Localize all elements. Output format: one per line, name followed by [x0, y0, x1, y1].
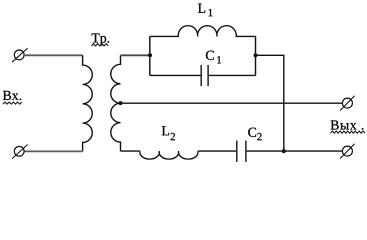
- label Vx: [3, 91, 21, 100]
- label Tr: [92, 33, 110, 45]
- wire C2 to output bottom: [247, 150, 343, 152]
- node dot output bottom junction: [282, 149, 286, 153]
- inductor L1: [150, 26, 256, 37]
- wire secondary top to tank: [121, 54, 150, 56]
- label C2: [248, 128, 261, 141]
- tank right vertical wire: [255, 36, 257, 75]
- wire secondary bottom to L2: [121, 150, 141, 152]
- wire tank bottom right: [209, 74, 256, 76]
- capacitor C1: [201, 65, 208, 86]
- node dot tank right: [254, 53, 258, 57]
- inductor L2: [140, 151, 198, 159]
- terminal output bottom: [340, 144, 354, 159]
- transformer Tr primary winding: [83, 55, 93, 151]
- tank left vertical wire: [149, 36, 151, 75]
- wire L2 to C2: [198, 150, 236, 152]
- terminal input top: [12, 48, 28, 62]
- node dot secondary tap: [119, 101, 123, 105]
- label L2: [162, 126, 175, 140]
- squiggle under Vx: [3, 102, 22, 104]
- squiggle under Vyx: [331, 131, 365, 133]
- label Vyx: [331, 120, 364, 129]
- wire tank bottom left: [150, 74, 201, 76]
- wire input bottom: [24, 150, 83, 152]
- node dot tank left: [148, 53, 152, 57]
- squiggle under Tr: [91, 44, 108, 46]
- label L1: [198, 4, 212, 17]
- transformer Tr secondary winding: [111, 55, 121, 151]
- terminal output top: [340, 96, 354, 111]
- capacitor C2: [237, 141, 246, 162]
- wire main output top: [121, 102, 343, 104]
- terminal input bottom: [12, 145, 28, 159]
- wire input top: [24, 54, 83, 56]
- wire tank right to output branch: [256, 55, 284, 151]
- label C1: [206, 51, 221, 64]
